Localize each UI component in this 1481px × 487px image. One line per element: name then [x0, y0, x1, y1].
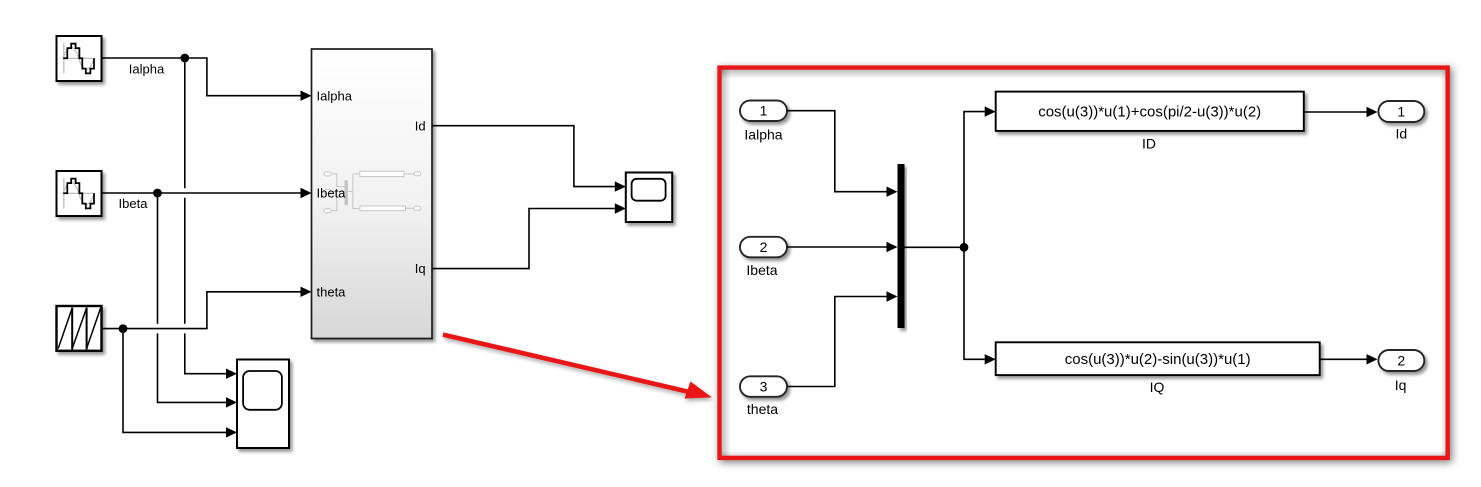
svg-text:1: 1 [760, 103, 768, 119]
svg-text:3: 3 [760, 379, 768, 395]
svg-text:Ibeta: Ibeta [119, 196, 149, 211]
svg-text:Id: Id [415, 118, 426, 133]
svg-text:ID: ID [1142, 136, 1156, 152]
svg-text:Ialpha: Ialpha [129, 62, 165, 77]
svg-text:Ibeta: Ibeta [746, 262, 777, 278]
svg-text:cos(u(3))*u(1)+cos(pi/2-u(3))*: cos(u(3))*u(1)+cos(pi/2-u(3))*u(2) [1038, 104, 1261, 121]
svg-text:Iq: Iq [415, 261, 426, 276]
svg-text:Ibeta: Ibeta [317, 186, 347, 201]
svg-text:theta: theta [317, 284, 347, 299]
svg-text:Id: Id [1395, 126, 1407, 142]
svg-text:cos(u(3))*u(2)-sin(u(3))*u(1): cos(u(3))*u(2)-sin(u(3))*u(1) [1065, 351, 1251, 368]
svg-text:1: 1 [1397, 104, 1405, 120]
svg-text:theta: theta [747, 401, 778, 417]
svg-text:Iq: Iq [1395, 377, 1407, 393]
svg-text:Ialpha: Ialpha [744, 126, 782, 142]
svg-text:Ialpha: Ialpha [317, 88, 353, 103]
svg-text:IQ: IQ [1150, 379, 1165, 395]
svg-text:2: 2 [760, 239, 768, 255]
svg-text:2: 2 [1397, 353, 1405, 369]
